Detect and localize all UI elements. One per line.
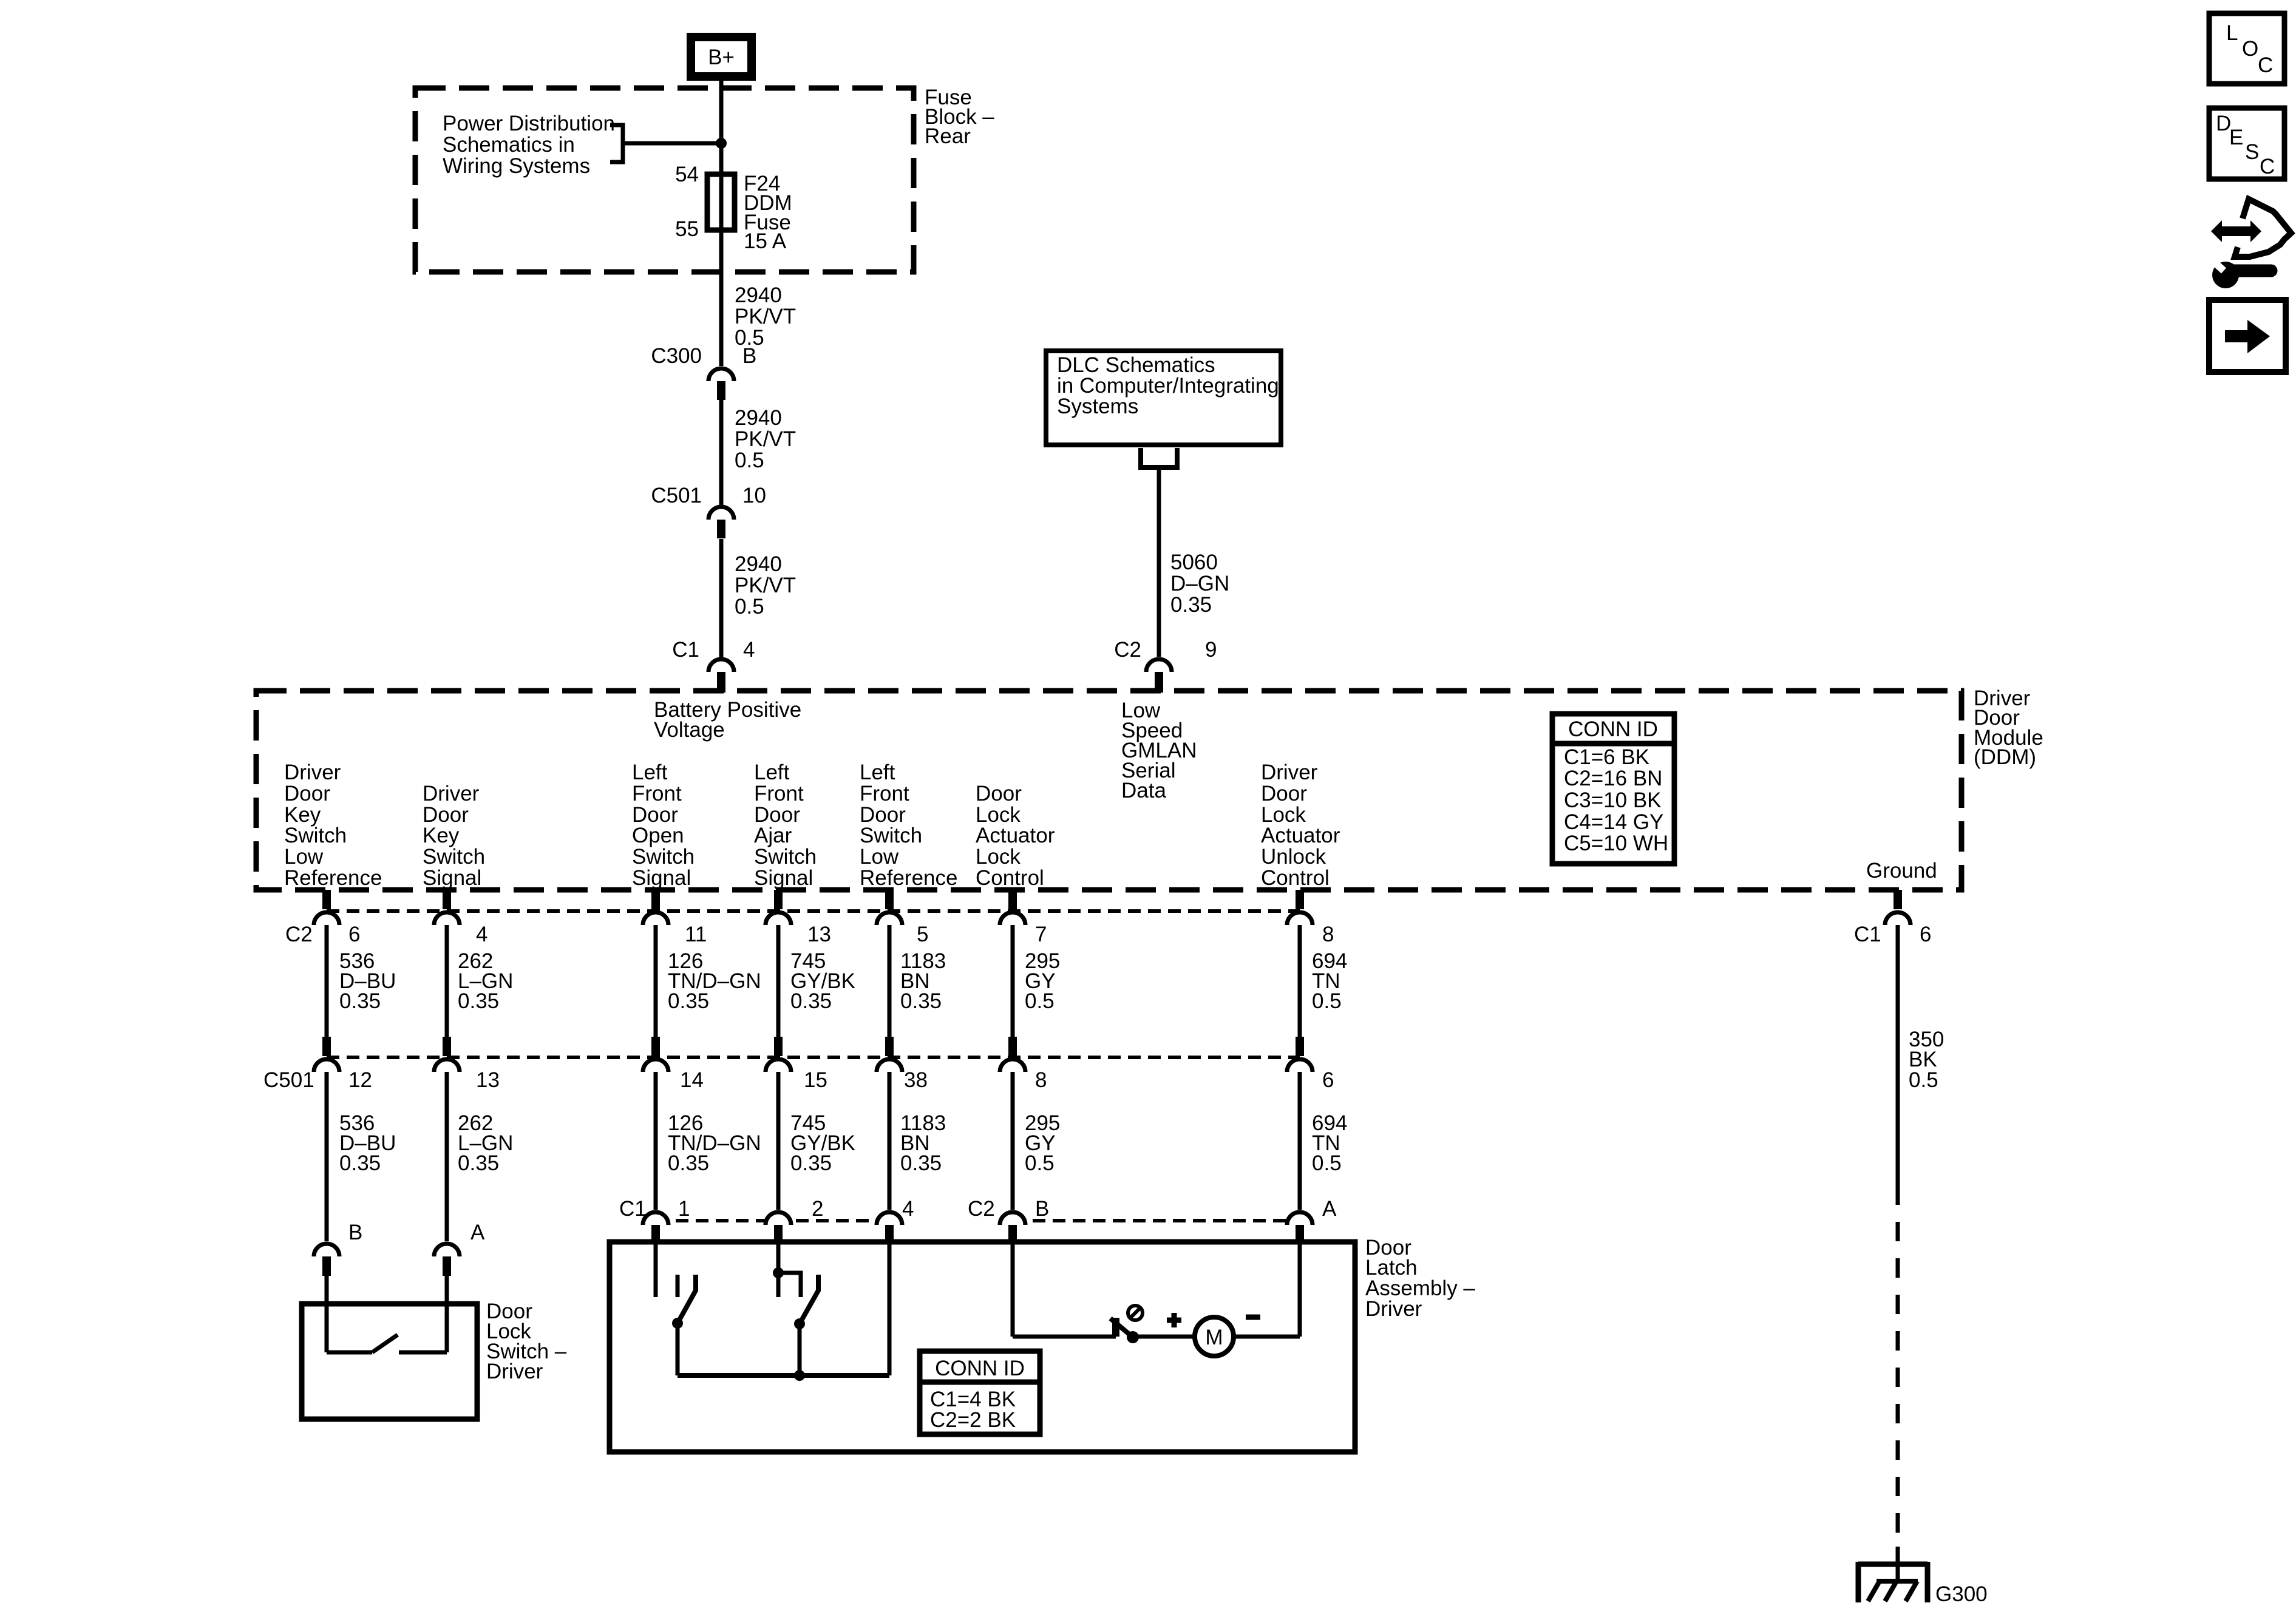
wire label 2940 PK/VT 0.5 (above C300) [735, 283, 796, 350]
DDM module dashed box [256, 691, 1961, 890]
svg-text:0.5: 0.5 [1312, 989, 1342, 1013]
wire pin38 C501 to latch C1-4 [888, 1072, 892, 1210]
svg-text:0.35: 0.35 [458, 989, 499, 1013]
wire pinB into latch [1011, 1244, 1015, 1337]
connector C501 pin 6 [1287, 1037, 1313, 1072]
svg-text:13: 13 [807, 923, 831, 946]
svg-text:C2: C2 [1114, 638, 1141, 662]
wire C300 to C501 [719, 400, 724, 505]
svg-text:Switch: Switch [284, 824, 347, 847]
svg-text:Driver: Driver [423, 782, 480, 805]
node junction dot [716, 138, 727, 149]
svg-text:Wiring Systems: Wiring Systems [443, 154, 590, 178]
svg-text:55: 55 [675, 217, 699, 241]
wire label 745 GY/BK 0.35 row1 [790, 949, 855, 1013]
svg-text:14: 14 [680, 1068, 704, 1092]
svg-text:2940: 2940 [735, 406, 782, 430]
wire label 694 TN 0.5 row1 [1312, 949, 1347, 1013]
svg-text:5060: 5060 [1170, 551, 1218, 574]
svg-text:6: 6 [1322, 1068, 1334, 1092]
wire pin4 DDM to C501 [445, 925, 449, 1037]
svg-text:Low: Low [860, 845, 899, 869]
svg-text:Ground: Ground [1866, 859, 1937, 883]
svg-text:A: A [470, 1221, 485, 1244]
svg-text:Reference: Reference [860, 866, 957, 890]
wire label 1183 BN 0.35 row1 [900, 949, 946, 1013]
svg-text:4: 4 [902, 1197, 914, 1221]
svg-text:Reference: Reference [284, 866, 382, 890]
svg-text:Driver: Driver [486, 1360, 543, 1383]
svg-text:0.35: 0.35 [900, 1151, 942, 1175]
pin label Left Front Door Open Switch Signal [632, 761, 695, 890]
svg-text:10: 10 [742, 484, 766, 507]
wire pin11 DDM to C501 [654, 925, 658, 1037]
wire label 694 TN 0.5 row2 [1312, 1111, 1347, 1175]
wire pinB to lock motor switch [1013, 1335, 1116, 1339]
wire label 126 TN/D-GN 0.35 row2 [668, 1111, 761, 1175]
svg-text:B: B [1035, 1197, 1049, 1221]
wire label 1183 BN 0.35 row2 [900, 1111, 946, 1175]
wire pin6 DDM to C501 [325, 925, 329, 1037]
connector C501 pin 12 [314, 1037, 339, 1072]
svg-text:Signal: Signal [754, 866, 813, 890]
svg-text:C1: C1 [1854, 923, 1881, 946]
wire B into door lock switch [325, 1276, 329, 1304]
wire label 350 BK 0.5 [1909, 1028, 1944, 1092]
svg-text:2: 2 [812, 1197, 823, 1221]
door lock switch label [486, 1300, 567, 1383]
connector C501 pin 13 [434, 1037, 460, 1072]
svg-text:L: L [2226, 21, 2238, 45]
svg-text:Signal: Signal [423, 866, 481, 890]
wire switch to motor [1133, 1335, 1195, 1339]
motor polarity plus [1167, 1313, 1181, 1327]
wire label 5060 D-GN 0.35 [1170, 551, 1229, 617]
svg-text:5: 5 [917, 923, 928, 946]
connector latch C1 pin 1 [643, 1212, 668, 1244]
svg-text:CONN ID: CONN ID [935, 1357, 1025, 1380]
svg-text:0.5: 0.5 [1025, 1151, 1055, 1175]
wire ground dashed [1896, 1185, 1900, 1560]
svg-text:0.35: 0.35 [339, 1151, 381, 1175]
svg-text:Open: Open [632, 824, 684, 847]
svg-text:Driver: Driver [284, 761, 341, 784]
svg-text:Data: Data [1121, 779, 1166, 802]
svg-text:M: M [1205, 1326, 1223, 1349]
wire pin13 DDM to C501 [776, 925, 781, 1037]
wire ground pin6 solid [1896, 925, 1900, 1185]
svg-text:A: A [1322, 1197, 1337, 1221]
icon car outline [2235, 199, 2291, 257]
svg-text:C1=6 BK: C1=6 BK [1564, 745, 1649, 769]
svg-text:12: 12 [348, 1068, 372, 1092]
svg-text:(DDM): (DDM) [1974, 745, 2036, 769]
CONN ID table (latch) [920, 1351, 1040, 1434]
svg-text:0.5: 0.5 [735, 595, 764, 619]
svg-text:C1: C1 [619, 1197, 647, 1221]
door latch assembly label [1365, 1236, 1475, 1321]
svg-text:PK/VT: PK/VT [735, 305, 796, 328]
svg-text:Left: Left [632, 761, 668, 784]
svg-text:4: 4 [476, 923, 487, 946]
connector C501 pin 38 [877, 1037, 902, 1072]
pin label Driver Door Key Switch Signal [423, 782, 485, 890]
svg-text:Control: Control [976, 866, 1044, 890]
pin label Driver Door Lock Actuator Unlock Control [1261, 761, 1340, 890]
svg-text:8: 8 [1322, 923, 1334, 946]
icon car double arrow [2211, 220, 2261, 242]
svg-text:C300: C300 [651, 344, 702, 368]
svg-text:C501: C501 [263, 1068, 314, 1092]
pin label Door Lock Actuator Lock Control [976, 782, 1055, 890]
svg-text:Front: Front [754, 782, 804, 805]
svg-text:B+: B+ [708, 46, 735, 69]
connector DDM C2 pin 7 exit [1000, 890, 1025, 925]
svg-text:0.35: 0.35 [339, 989, 381, 1013]
svg-text:15 A: 15 A [744, 229, 787, 253]
connector C1 pin 4 (DDM top) [708, 659, 734, 693]
connector latch C2 pin A [1287, 1212, 1313, 1244]
ground G300 symbol [1858, 1562, 1927, 1602]
svg-text:Switch: Switch [754, 845, 817, 869]
svg-text:B: B [348, 1221, 362, 1244]
svg-text:9: 9 [1205, 638, 1217, 662]
wire motor to pinA [1234, 1335, 1300, 1339]
svg-text:Power Distribution: Power Distribution [443, 112, 615, 135]
svg-text:8: 8 [1035, 1068, 1047, 1092]
node Battery Positive Voltage [654, 698, 801, 742]
svg-text:C4=14 GY: C4=14 GY [1564, 810, 1663, 834]
icon DESC box [2209, 108, 2284, 179]
svg-text:Switch: Switch [860, 824, 922, 847]
connector latch C2 pin B [1000, 1212, 1025, 1244]
wire pin12 C501 to door lock switch B [325, 1072, 329, 1241]
connector C2 row fine dashed line (latch) [1013, 1219, 1300, 1222]
wire pin7 DDM to C501 [1011, 925, 1015, 1037]
svg-text:54: 54 [675, 163, 699, 186]
svg-text:C1: C1 [672, 638, 699, 662]
svg-text:PK/VT: PK/VT [735, 574, 796, 597]
power symbol B+ [687, 33, 756, 81]
wire pin13 C501 to door lock switch A [445, 1072, 449, 1241]
svg-text:Front: Front [632, 782, 682, 805]
svg-text:Voltage: Voltage [654, 718, 725, 742]
reference bracket [610, 125, 623, 162]
svg-text:Actuator: Actuator [1261, 824, 1340, 847]
svg-text:0.35: 0.35 [668, 989, 709, 1013]
svg-text:Switch: Switch [423, 845, 485, 869]
wire label 126 TN/D-GN 0.35 row1 [668, 949, 761, 1013]
svg-text:0.35: 0.35 [790, 989, 832, 1013]
svg-text:Key: Key [423, 824, 460, 847]
connector door lock switch pin A [434, 1244, 460, 1276]
wire pin5 DDM to C501 [888, 925, 892, 1037]
connector C501 pin 8 [1000, 1037, 1025, 1072]
lock motor switch pivot [1127, 1331, 1139, 1343]
wire pin15 C501 to latch C1-2 [776, 1072, 781, 1210]
svg-text:C5=10 WH: C5=10 WH [1564, 832, 1668, 855]
svg-text:Driver: Driver [1365, 1297, 1422, 1321]
svg-text:B: B [742, 344, 756, 368]
svg-text:Driver: Driver [1261, 761, 1318, 784]
lock motor switch blade [1110, 1318, 1133, 1337]
connector DDM C2 pin 8 exit [1287, 890, 1313, 925]
svg-text:E: E [2229, 126, 2243, 149]
connector latch C1 pin 2 [766, 1212, 791, 1244]
wire B+ to fuse [719, 81, 724, 366]
DLC bracket [1141, 448, 1177, 467]
pin label Left Front Door Switch Low Reference [860, 761, 957, 890]
svg-text:6: 6 [1920, 923, 1931, 946]
wire pin8 DDM to C501 [1298, 925, 1302, 1037]
wire label 2940 PK/VT 0.5 (above DDM) [735, 552, 796, 619]
svg-text:0.35: 0.35 [790, 1151, 832, 1175]
connector DDM C2 pin 5 exit [877, 890, 902, 925]
svg-text:Front: Front [860, 782, 909, 805]
wire pin8 C501 to latch C2-B [1011, 1072, 1015, 1210]
door lock switch driver box [302, 1304, 477, 1419]
wire pin1 into latch [654, 1244, 658, 1297]
wire label 536 D-BU 0.35 row1 [339, 949, 396, 1013]
svg-text:2940: 2940 [735, 552, 782, 576]
icon wrench [2212, 260, 2271, 288]
svg-text:C2: C2 [968, 1197, 995, 1221]
svg-text:0.35: 0.35 [458, 1151, 499, 1175]
wire C501 to DDM C1 [719, 539, 724, 657]
motor polarity minus [1246, 1315, 1260, 1320]
wire ground stub [1896, 1547, 1900, 1581]
connector latch C1 pin 4 [877, 1212, 902, 1244]
motor M door lock actuator [1195, 1317, 1234, 1356]
connector DDM C2 pin 11 exit [643, 890, 668, 925]
svg-text:0.35: 0.35 [1170, 593, 1212, 617]
svg-text:13: 13 [476, 1068, 500, 1092]
svg-text:Door: Door [1261, 782, 1307, 805]
DLC schematics reference box [1046, 351, 1281, 445]
door lock switch S1 [327, 1304, 447, 1352]
connector C2 pin 9 (DDM top) [1146, 659, 1172, 693]
wire label 262 L-GN 0.35 row2 [458, 1111, 513, 1175]
wire label 295 GY 0.5 row1 [1025, 949, 1060, 1013]
svg-text:Signal: Signal [632, 866, 691, 890]
svg-text:S: S [2245, 140, 2259, 164]
wire label 295 GY 0.5 row2 [1025, 1111, 1060, 1175]
svg-text:Door: Door [284, 782, 330, 805]
wire DLC to DDM C2 [1157, 467, 1161, 657]
wire pin6 C501 to latch C2-A [1298, 1072, 1302, 1210]
wire pin14 C501 to latch C1-1 [654, 1072, 658, 1210]
svg-text:Ajar: Ajar [754, 824, 792, 847]
svg-text:D–GN: D–GN [1170, 572, 1229, 595]
wire from bracket to node [623, 141, 721, 146]
door latch assembly box [610, 1242, 1355, 1452]
svg-text:Unlock: Unlock [1261, 845, 1326, 869]
wire pin2 into latch [776, 1244, 781, 1297]
wire pinA into latch [1298, 1244, 1302, 1337]
svg-text:C3=10 BK: C3=10 BK [1564, 788, 1662, 812]
svg-text:C2: C2 [285, 923, 313, 946]
svg-text:0.35: 0.35 [668, 1151, 709, 1175]
svg-text:PK/VT: PK/VT [735, 427, 796, 451]
connector C501 [708, 507, 734, 538]
svg-text:Control: Control [1261, 866, 1330, 890]
connector C501 pin 15 [766, 1037, 791, 1072]
connector C300 [708, 368, 734, 400]
svg-text:C: C [2258, 53, 2273, 77]
pin label Left Front Door Ajar Switch Signal [754, 761, 817, 890]
svg-text:Left: Left [860, 761, 895, 784]
connector C1 row fine dashed line (latch) [656, 1219, 889, 1222]
connector DDM C2 pin 4 exit [434, 890, 460, 925]
svg-text:4: 4 [743, 638, 755, 662]
svg-text:Low: Low [284, 845, 324, 869]
svg-text:C2=2 BK: C2=2 BK [930, 1408, 1016, 1432]
wire label 262 L-GN 0.35 row1 [458, 949, 513, 1013]
fuse F24 body [707, 174, 735, 230]
svg-text:Actuator: Actuator [976, 824, 1055, 847]
fuse block label [925, 86, 994, 148]
door ajar switch SW2 [794, 1275, 818, 1375]
icon arrow box [2209, 300, 2286, 372]
svg-text:G300: G300 [1935, 1582, 1988, 1606]
door ajar switch contact hook [778, 1273, 801, 1297]
svg-text:7: 7 [1035, 923, 1047, 946]
pin label Driver Door Key Switch Low Reference [284, 761, 382, 890]
svg-text:0.5: 0.5 [1025, 989, 1055, 1013]
wire switch common bus [678, 1373, 889, 1378]
connector C501 row fine dashed line [327, 1056, 1300, 1059]
connector DDM C2 pin 6 exit [314, 890, 339, 925]
wire label 745 GY/BK 0.35 row2 [790, 1111, 855, 1175]
connector C2 row fine dashed line (DDM bottom) [327, 909, 1300, 913]
svg-text:0.5: 0.5 [1312, 1151, 1342, 1175]
wire label 2940 PK/VT 0.5 (above C501) [735, 406, 796, 472]
fuse F24 value label [744, 172, 792, 253]
svg-text:Left: Left [754, 761, 790, 784]
svg-text:38: 38 [904, 1068, 928, 1092]
power distribution reference label [443, 112, 615, 178]
svg-text:0.35: 0.35 [900, 989, 942, 1013]
node junction pin2 [773, 1267, 784, 1278]
svg-text:O: O [2242, 37, 2258, 61]
lock motor switch fixed contact [1112, 1318, 1119, 1337]
connector DDM C2 pin 13 exit [766, 890, 791, 925]
svg-text:0.5: 0.5 [735, 449, 764, 472]
wire label 536 D-BU 0.35 row2 [339, 1111, 396, 1175]
door open switch SW1 [672, 1275, 696, 1375]
svg-text:1: 1 [678, 1197, 690, 1221]
svg-text:6: 6 [348, 923, 360, 946]
svg-text:Rear: Rear [925, 124, 971, 148]
svg-text:Switch: Switch [632, 845, 695, 869]
svg-text:Schematics in: Schematics in [443, 133, 575, 157]
connector DDM C1 pin 6 ground exit [1885, 890, 1911, 925]
CONN ID table (DDM) [1552, 714, 1674, 864]
svg-text:0.5: 0.5 [1909, 1068, 1938, 1092]
svg-text:C: C [2260, 155, 2275, 178]
svg-text:Systems: Systems [1057, 395, 1138, 418]
solenoid symbol circle-slash [1128, 1306, 1143, 1320]
svg-text:2940: 2940 [735, 283, 782, 307]
svg-text:Door: Door [976, 782, 1022, 805]
wire A into door lock switch [445, 1276, 449, 1304]
node junction switch common [794, 1370, 805, 1381]
wire pin4 into latch [888, 1244, 892, 1375]
svg-text:11: 11 [685, 923, 707, 946]
svg-text:C501: C501 [651, 484, 702, 507]
fuse block rear dashed box [415, 88, 914, 272]
icon LOC box [2209, 13, 2284, 84]
node Low Speed GMLAN Serial Data [1121, 699, 1197, 802]
connector C501 pin 14 [643, 1037, 668, 1072]
connector door lock switch pin B [314, 1244, 339, 1276]
svg-text:15: 15 [804, 1068, 827, 1092]
svg-text:Lock: Lock [976, 845, 1021, 869]
svg-text:CONN ID: CONN ID [1568, 717, 1658, 741]
DDM module name label [1974, 686, 2043, 769]
svg-text:C2=16 BN: C2=16 BN [1564, 767, 1662, 790]
